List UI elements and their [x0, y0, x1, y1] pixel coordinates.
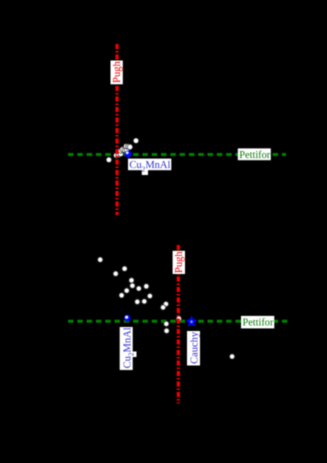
svg-text:Pettifor: Pettifor	[243, 318, 274, 329]
svg-text:Pugh: Pugh	[174, 251, 185, 273]
svg-text:Pettifor: Pettifor	[239, 150, 270, 161]
svg-text:Cauchy: Cauchy	[189, 331, 200, 364]
svg-text:Pugh: Pugh	[112, 61, 123, 83]
